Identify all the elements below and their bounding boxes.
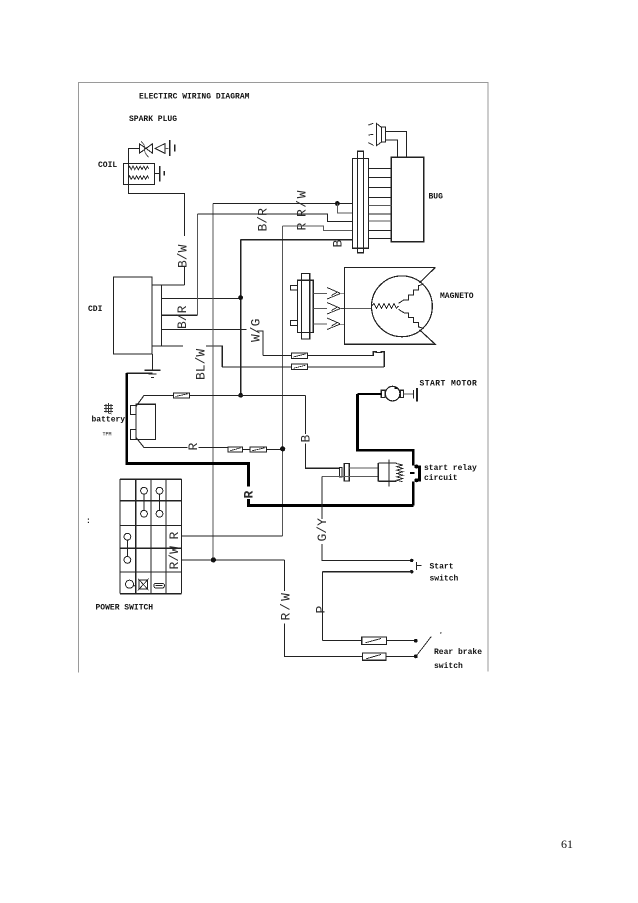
magneto connector tab 1: [291, 285, 298, 290]
wire coil to spark gap 2: [155, 173, 160, 175]
connector rung 4: [369, 196, 392, 198]
svg-text:MAGNETO: MAGNETO: [440, 292, 474, 301]
svg-text:CDI: CDI: [88, 305, 103, 314]
junction dot R/W-strip: [335, 201, 340, 206]
relay wire top pin: [349, 467, 378, 469]
wire P lower: [322, 640, 415, 642]
relay coil box K1: [378, 463, 396, 481]
svg-text:BL/W: BL/W: [194, 349, 209, 380]
rear brake dot 2: [414, 655, 418, 659]
magneto wire 3: [313, 323, 327, 325]
magneto core steps upper: [399, 284, 424, 303]
wire coil-top to bowtie: [128, 149, 139, 164]
key icon row5 col1: [126, 580, 134, 588]
capsule icon row5 col3: [154, 583, 165, 588]
battery minus wire R: [144, 448, 283, 450]
fuse F1: [174, 393, 190, 398]
stub dot to strip: [337, 204, 352, 213]
svg-text:BUG: BUG: [429, 193, 444, 202]
horn wire 2: [386, 140, 398, 158]
svg-text:B: B: [331, 240, 346, 248]
svg-text:COIL: COIL: [98, 161, 117, 170]
connector rung 9: [369, 237, 392, 239]
thick ground bus from battery: [125, 373, 248, 463]
connector rung 2: [369, 176, 392, 178]
relay connector bar 1: [340, 468, 342, 478]
svg-text:START MOTOR: START MOTOR: [420, 380, 478, 389]
svg-text::: :: [86, 517, 91, 526]
magneto flywheel circle: [372, 276, 433, 337]
wire G/Y lower: [322, 544, 412, 560]
wire P vertical: [321, 572, 323, 641]
arrow 3: [327, 318, 345, 330]
wire R/W from switch: [181, 559, 284, 561]
svg-text:circuit: circuit: [424, 474, 458, 483]
battery chinese label: [104, 403, 113, 414]
horn speaker LS1: [377, 124, 382, 146]
wire B/W lower part: [184, 267, 186, 285]
motor mark: [395, 387, 397, 389]
battery minus diagonal: [136, 438, 144, 448]
diode triangle D2: [155, 144, 165, 154]
arrow 2: [327, 303, 345, 315]
magneto wire 1: [313, 293, 327, 295]
junction dot B-battery: [238, 393, 243, 398]
W/G jog and down leg: [257, 331, 263, 356]
svg-text:B/R: B/R: [256, 208, 271, 232]
motor wire left thick: [358, 393, 382, 395]
magneto winding zigzag: [372, 303, 399, 308]
relay contact dot top: [414, 465, 418, 469]
ground below CDI: [145, 354, 161, 377]
switch contacts col2: [141, 487, 148, 494]
diode bowtie symbol D1: [139, 144, 152, 154]
vertical gray wire x197 (B/R net): [197, 214, 199, 315]
fuse F4: [291, 353, 307, 358]
squiggle over bowtie: [141, 142, 149, 158]
motor wire right: [404, 393, 413, 395]
fuse F7: [363, 653, 387, 660]
coil internal wire: [127, 164, 129, 185]
power switch table SW1: [120, 479, 182, 594]
fuse F5 wire B: [222, 366, 384, 368]
motor brush right: [400, 390, 403, 397]
relay contact bar: [418, 466, 421, 482]
vertical gray wire x213 (R/W net): [212, 204, 214, 560]
svg-text:switch: switch: [434, 662, 463, 671]
fuse F3: [250, 447, 266, 452]
svg-text:R: R: [295, 223, 310, 231]
svg-text:TPM: TPM: [103, 432, 112, 438]
thick wire motor to relay: [356, 394, 413, 466]
wire R/W lower: [284, 624, 416, 657]
svg-text:R/W: R/W: [295, 189, 310, 217]
svg-text:61: 61: [561, 837, 573, 851]
wire P top: [322, 571, 411, 573]
fuse F5: [291, 364, 307, 370]
junction dot R net: [280, 446, 285, 451]
wire B lower: [306, 444, 340, 469]
magneto connector wide bar: [298, 280, 314, 332]
thick wire relay down: [412, 482, 415, 506]
svg-text:R: R: [242, 491, 257, 499]
connector rung 5: [369, 205, 392, 207]
magneto box outline: [345, 268, 436, 345]
svg-text:R: R: [167, 532, 182, 540]
connector rung 7: [369, 220, 392, 222]
magneto wire 2: [313, 308, 371, 310]
spark plug gap 2: [159, 166, 161, 181]
svg-text:Rear brake: Rear brake: [434, 648, 482, 657]
CDI pin1 wire to B/W: [152, 284, 185, 286]
thick wire down with R label: [247, 462, 413, 505]
rear brake lever: [417, 637, 431, 655]
BUG connector box: [391, 157, 424, 242]
fuse F4 wire A: [263, 354, 373, 356]
svg-text:POWER SWITCH: POWER SWITCH: [96, 604, 154, 613]
motor brush left: [381, 390, 385, 397]
start switch contact top: [410, 559, 413, 562]
crossed box icon row5 col2: [139, 580, 147, 589]
svg-text:B/W: B/W: [176, 244, 191, 268]
svg-text:Start: Start: [430, 563, 454, 572]
svg-text:W/G: W/G: [249, 319, 264, 342]
wire R upper run: [283, 226, 353, 230]
coil box: [124, 164, 155, 185]
svg-text:G/Y: G/Y: [315, 518, 330, 542]
CDI pin4 wire W/G: [161, 329, 247, 331]
wire R/W down: [283, 560, 285, 591]
battery plus wire: [144, 394, 306, 396]
wire G/Y from relay: [321, 476, 323, 519]
wire B down to relay: [305, 395, 307, 434]
magneto connector narrow bar: [301, 274, 309, 340]
battery plus diagonal: [136, 395, 144, 406]
svg-text:ELECTIRC WIRING DIAGRAM: ELECTIRC WIRING DIAGRAM: [139, 93, 250, 102]
connector strip wide bar: [353, 158, 369, 248]
arrow 1: [327, 288, 345, 300]
horn sound dashes: [368, 123, 373, 145]
CDI box U1: [114, 277, 153, 354]
rear brake dot 1: [414, 639, 418, 643]
svg-text:R/W: R/W: [279, 591, 294, 620]
relay connector bar 2: [344, 464, 349, 482]
connector rung 6: [369, 213, 392, 215]
connector rung 1: [369, 167, 392, 169]
svg-text:P: P: [314, 606, 329, 614]
connector rung 8: [369, 229, 392, 231]
magneto plug tab: [373, 352, 384, 367]
coil winding 2: [128, 176, 148, 179]
relay coil zigzag: [396, 464, 403, 482]
junction dot R/W: [211, 557, 216, 562]
junction dot B-CDI: [238, 295, 243, 300]
relay gate tick: [410, 472, 414, 474]
battery terminal -: [131, 429, 137, 439]
border frame: [79, 83, 489, 673]
wire coil bottom to B/W: [128, 185, 184, 237]
battery terminal +: [131, 406, 137, 415]
relay coil center line: [388, 460, 390, 487]
wire R/W upper run: [213, 203, 352, 205]
vertical wire x240 (B net): [240, 240, 242, 396]
spark plug gap 1: [169, 140, 171, 156]
fuse F6: [362, 637, 387, 644]
wire to spark gap 1: [165, 147, 169, 149]
vertical gray wire x282 (R net): [282, 226, 284, 536]
BL/W continuation: [206, 346, 222, 367]
start switch bar: [417, 562, 422, 570]
CDI pin2 wire B to junction: [161, 297, 241, 299]
relay wire lower pin: [322, 475, 379, 477]
coil winding 1: [128, 166, 148, 169]
svg-text:start relay: start relay: [424, 464, 477, 473]
magneto core steps lower: [399, 309, 424, 328]
relay contact dot bottom: [414, 478, 418, 482]
CDI pin bus: [161, 285, 163, 346]
magneto connector tab 2: [291, 321, 298, 326]
svg-text:R: R: [186, 443, 201, 451]
fuse F2: [228, 447, 242, 452]
wire R from switch: [181, 535, 282, 537]
connector rung 3: [369, 186, 392, 188]
wire B to strip: [241, 239, 353, 241]
svg-text:battery: battery: [92, 416, 126, 425]
svg-text:B/R: B/R: [175, 305, 190, 329]
svg-text:SPARK PLUG: SPARK PLUG: [129, 115, 177, 124]
switch contacts col3: [156, 487, 163, 494]
wire B/R upper run: [198, 214, 353, 221]
svg-text:switch: switch: [430, 575, 459, 584]
svg-text:B: B: [299, 435, 314, 443]
motor ground: [413, 390, 415, 399]
switch contacts col1: [124, 533, 131, 540]
horn wire 1: [386, 131, 407, 157]
battery BT1 box: [136, 404, 156, 439]
start motor M1 circle: [385, 386, 400, 401]
wire ground to battery line: [127, 372, 153, 374]
CDI pin3 wire B/R: [161, 314, 198, 316]
connector strip narrow bar: [358, 151, 364, 253]
svg-text:R/W: R/W: [167, 546, 182, 570]
CDI pin5 wire BL/W: [152, 345, 183, 347]
start switch contact bottom: [410, 570, 413, 573]
